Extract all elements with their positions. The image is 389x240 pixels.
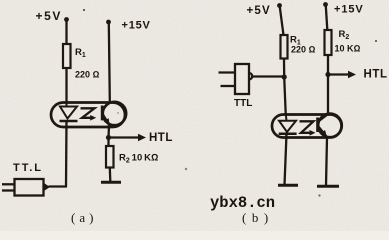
svg-text:R2 10 KΩ: R2 10 KΩ: [119, 153, 158, 165]
svg-text:+15V: +15V: [122, 20, 151, 32]
terminal +5V (b): [277, 3, 282, 8]
wire +15V to R2 (b): [326, 6, 328, 30]
light arrows (a): [81, 108, 97, 120]
speck mid: [185, 168, 187, 170]
svg-text:HTL: HTL: [149, 132, 173, 144]
TTL gate (a): [2, 179, 50, 196]
wire R1 to junction (b): [283, 59, 286, 78]
wire junction to LED anode (b): [284, 77, 286, 116]
wire LED cathode down (a): [65, 121, 68, 187]
light arrows (b): [300, 121, 316, 135]
svg-text:10 KΩ: 10 KΩ: [335, 44, 361, 54]
svg-text:+5V: +5V: [36, 9, 63, 23]
svg-text:(b): (b): [242, 210, 274, 225]
wire emitter to ground (b): [326, 137, 327, 186]
phototransistor Q (a): [102, 101, 110, 125]
LED D (a): [60, 104, 78, 121]
node collector junction (b): [325, 72, 330, 77]
speck right: [375, 40, 377, 42]
terminal +5V (a): [64, 17, 69, 22]
svg-text:TTL: TTL: [234, 98, 252, 109]
svg-text:+15V: +15V: [334, 4, 364, 16]
wire node to collector (b): [327, 75, 329, 115]
phototransistor circle (b): [318, 114, 342, 138]
svg-text:+5V: +5V: [247, 5, 271, 17]
wire +5V to R1 (a): [65, 21, 67, 44]
wire emitter to node (a): [107, 125, 110, 138]
speck top: [83, 9, 85, 11]
node emitter junction (a): [106, 135, 111, 140]
optocoupler body (b): [272, 115, 342, 138]
wire LED cathode to ground (b): [285, 134, 287, 185]
wire R2 to node (b): [327, 55, 329, 75]
wire HTL output (b): [328, 73, 350, 75]
wire TTL output to junction (b): [253, 75, 284, 77]
phototransistor circle (a): [103, 102, 126, 125]
wire +5V to R1 (b): [280, 7, 284, 35]
wire +15V to collector (a): [109, 23, 110, 101]
speck bottom: [318, 194, 320, 196]
ground (a): [101, 181, 121, 184]
wire node to R2 (a): [107, 138, 109, 147]
LED D (b): [279, 116, 297, 134]
svg-text:220 Ω: 220 Ω: [75, 70, 100, 80]
resistor R1 (b): [281, 35, 288, 59]
svg-text:(a): (a): [71, 210, 97, 225]
terminal +15V (b): [323, 2, 328, 7]
resistor R2 (b): [325, 30, 332, 55]
resistor R1 (a): [63, 44, 71, 68]
optocoupler body (a): [51, 103, 125, 128]
wire TTL output corner (a): [49, 185, 68, 187]
phototransistor Q (b): [318, 114, 328, 137]
resistor R2 (a): [106, 146, 114, 168]
wire R2 to ground (a): [109, 168, 112, 182]
wire HTL output (a): [109, 136, 141, 138]
svg-text:TT.L: TT.L: [13, 162, 43, 174]
wire R1 to LED anode (a): [65, 68, 67, 104]
ground LED (b): [278, 184, 298, 187]
ground emitter (b): [317, 185, 339, 188]
speck near circle (a): [117, 112, 119, 114]
svg-text:220 Ω: 220 Ω: [291, 45, 316, 55]
TTL gate (b): [219, 64, 253, 94]
node junction R1/TTL (b): [282, 74, 287, 79]
svg-text:HTL: HTL: [364, 69, 388, 81]
terminal +15V (a): [106, 20, 111, 25]
